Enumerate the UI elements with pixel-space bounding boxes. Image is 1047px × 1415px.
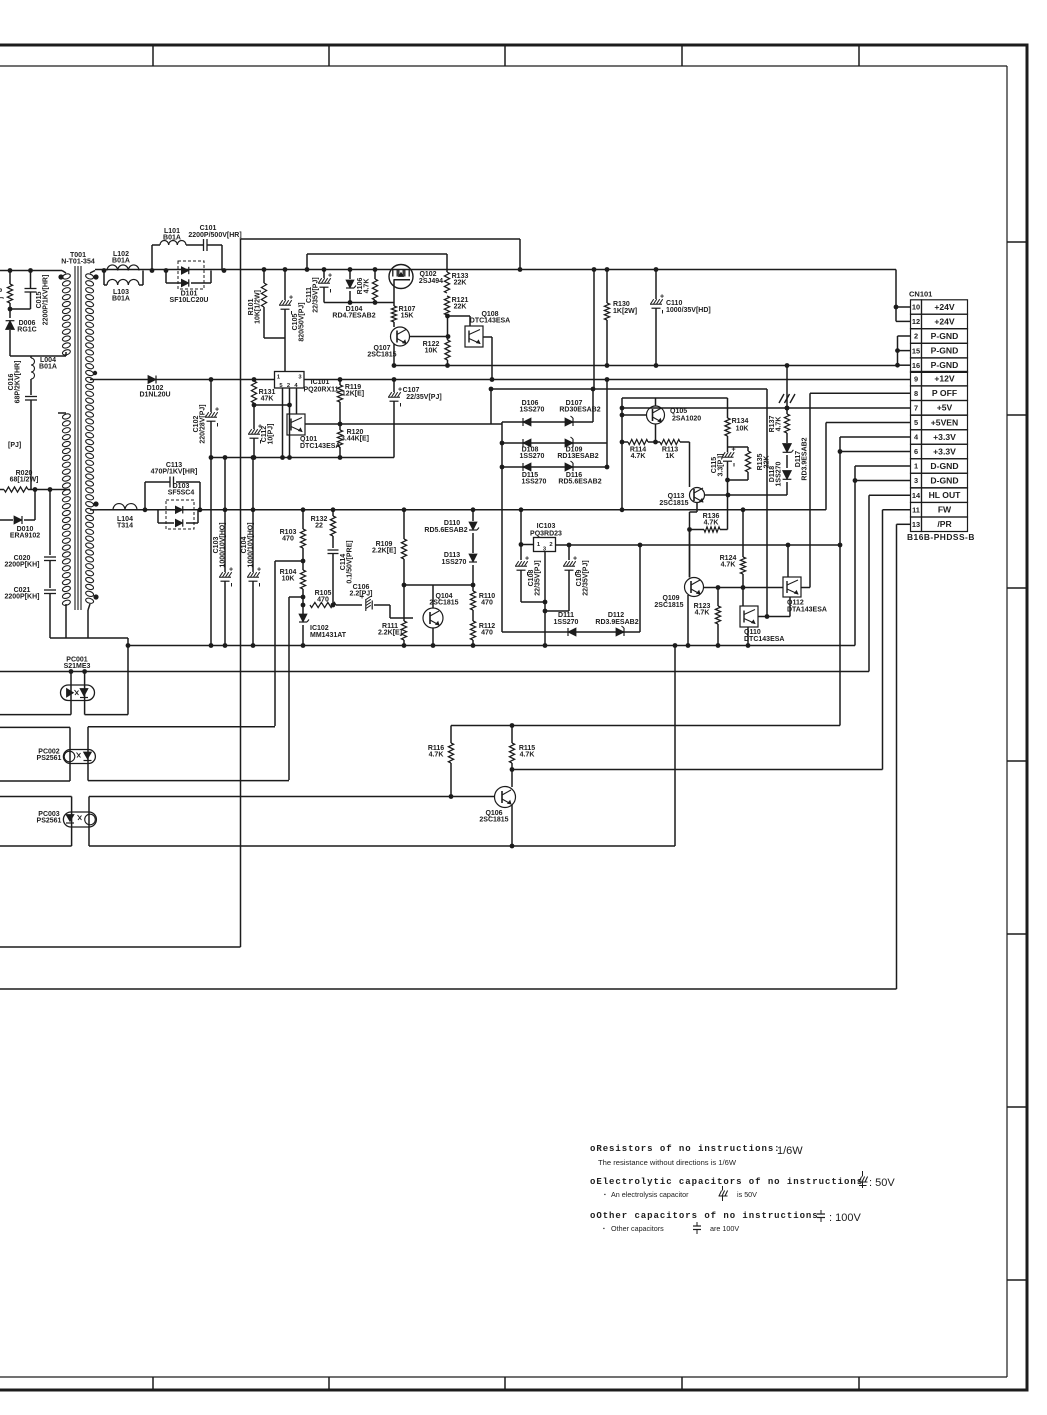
svg-text:B01A: B01A: [163, 235, 181, 242]
svg-text:RG1C: RG1C: [17, 327, 36, 334]
optocoupler PC003: [63, 812, 96, 827]
zener D112: [616, 628, 624, 636]
wire R104 to IC102: [302, 589, 304, 614]
wire +3.3V riser to pins 4/6: [839, 437, 841, 545]
wire P-GND drop to 777: [786, 366, 788, 409]
svg-text:PQ20RX11: PQ20RX11: [303, 387, 338, 394]
resistor R121: [444, 296, 449, 315]
node D112 riser top: [638, 543, 643, 548]
svg-text:is 50V: is 50V: [737, 1190, 757, 1199]
wire R131 bottom to pin2: [254, 404, 289, 406]
svg-text:D113: D113: [444, 552, 460, 559]
wire PC002 left-bottom wire: [0, 780, 70, 782]
diode D101 lower: [181, 279, 188, 286]
transformer polarity dot primary: [58, 274, 63, 279]
wire Q113 emitter drop: [696, 503, 698, 513]
svg-text:4.7K: 4.7K: [364, 279, 371, 294]
svg-text:B01A: B01A: [39, 364, 57, 371]
wire +3.3V rail: [556, 544, 841, 546]
svg-text:RD5.6ESAB2: RD5.6ESAB2: [424, 527, 467, 534]
svg-text:+: +: [660, 294, 664, 301]
wire +24V rail (transformer secondary to CN101): [95, 269, 896, 271]
svg-text:R134: R134: [732, 418, 749, 425]
wire Q108 output: [483, 336, 492, 338]
svg-text:6: 6: [914, 447, 918, 456]
node PC001 right on HL line: [82, 669, 87, 674]
node x211 rail457 left: [209, 455, 214, 460]
capacitor C020: [44, 556, 56, 558]
resistor R110: [470, 591, 475, 610]
wire D111/D112 row: [502, 631, 640, 633]
svg-text:SF5SC4: SF5SC4: [168, 490, 195, 497]
resistor R123: [717, 588, 719, 607]
svg-text:22K: 22K: [454, 304, 467, 311]
node C108 on +5VEN: [519, 507, 524, 512]
node R132 top: [331, 507, 336, 512]
node C104 bottom: [251, 643, 256, 648]
wire bottom-left horizontal y=947: [0, 946, 241, 948]
wire HL OUT long line y=672: [0, 671, 869, 673]
svg-text:14: 14: [912, 491, 921, 500]
node C103 top on y457: [223, 455, 228, 460]
resistor R106: [374, 270, 376, 280]
svg-text:+5V: +5V: [937, 403, 953, 413]
inductor L103 (parallel): [103, 271, 105, 286]
note electrolytic symbol: [859, 1177, 862, 1183]
wire D107 riser: [592, 389, 594, 422]
svg-text:10K[1/2W]: 10K[1/2W]: [255, 290, 262, 324]
svg-text:2200P[KH]: 2200P[KH]: [4, 562, 39, 569]
wire IC103 pin3 drop: [544, 552, 546, 646]
svg-text:Q113: Q113: [668, 493, 685, 500]
wire +5V wire to pin7: [620, 407, 910, 409]
svg-text:10K: 10K: [736, 426, 749, 433]
wire IC101 pin2 drop: [289, 388, 291, 458]
capacitor C015: [30, 271, 32, 289]
svg-text:2SC1815: 2SC1815: [429, 600, 458, 607]
wire x594 from +24V: [593, 270, 595, 390]
node L101 branch left: [150, 268, 155, 273]
svg-text:DTC143ESA: DTC143ESA: [744, 636, 784, 643]
wire C108 riser: [520, 510, 522, 560]
wire secondary top exit: [90, 271, 95, 274]
svg-text:22K: 22K: [454, 280, 467, 287]
node divider tap: [301, 559, 306, 564]
node C105 top: [283, 267, 288, 272]
right border tick 3: [1007, 587, 1027, 589]
node Q110 emitter: [746, 643, 751, 648]
wire C115/R135 bottom tie: [728, 479, 749, 481]
resistor R130: [606, 270, 608, 304]
transistor Q107: [391, 327, 410, 346]
wire PC001 bottom-left: [0, 714, 71, 716]
svg-text:8: 8: [914, 389, 918, 398]
wire ground rail riser: [127, 638, 129, 646]
resistor R113: [660, 439, 680, 444]
svg-text:+: +: [289, 295, 293, 302]
node riser x=491: [489, 387, 494, 392]
capacitor C021: [44, 589, 56, 591]
wire PC003 left-top wire: [0, 796, 72, 798]
wire D112 riser to +3.3V: [639, 545, 641, 632]
node D107 riser: [591, 387, 596, 392]
transformer polarity dot +12V tap: [93, 371, 97, 375]
svg-text:1: 1: [914, 462, 918, 471]
svg-text:1K: 1K: [666, 453, 675, 460]
bottom border tick 3: [504, 1377, 506, 1390]
drawing frame inner border (bottom): [0, 1376, 1007, 1378]
svg-text:C107: C107: [403, 387, 420, 394]
node P-GND tap x787: [785, 363, 790, 368]
node pin10 wire: [894, 305, 899, 310]
transistor Q110 (digital): [740, 606, 758, 627]
wire pin5 +5VEN stub: [826, 422, 911, 424]
wire Q105 emitter stub: [655, 398, 657, 406]
svg-text:+24V: +24V: [934, 316, 955, 326]
svg-text:IC103: IC103: [537, 523, 556, 530]
wire D-GND vertical: [854, 466, 856, 646]
svg-text:1SS270: 1SS270: [442, 559, 467, 566]
node R130 bottom: [605, 363, 610, 368]
svg-text:1SS270: 1SS270: [520, 407, 545, 414]
resistor R112: [472, 610, 474, 621]
wire PC001 left pin: [70, 672, 72, 715]
svg-text:+: +: [328, 273, 332, 280]
ic IC101 box: [275, 372, 305, 389]
resistor R135: [747, 447, 749, 451]
svg-text:12: 12: [912, 317, 920, 326]
node +3.3V tie: [838, 449, 843, 454]
diode D115: [523, 463, 531, 471]
svg-text:10K: 10K: [282, 576, 295, 583]
resistor R134: [727, 398, 729, 418]
svg-text:PS2561: PS2561: [37, 818, 62, 825]
node R109 top: [402, 507, 407, 512]
svg-text:22: 22: [315, 523, 323, 530]
svg-text:ERA9102: ERA9102: [10, 533, 40, 540]
node R124 bottom on collector row: [741, 585, 746, 590]
note other symbol: [820, 1210, 822, 1214]
resistor R018 (partial at left edge): [7, 284, 12, 303]
wire feedback tap 2: [289, 596, 303, 598]
drawing frame outer border (right): [1026, 45, 1029, 1391]
zener D116: [565, 463, 573, 471]
node R122 bottom: [445, 363, 450, 368]
node C109 return: [543, 609, 548, 614]
node R123 top: [716, 585, 721, 590]
svg-text:4.7K: 4.7K: [721, 562, 736, 569]
svg-text:The resistance without directi: The resistance without directions is 1/6…: [598, 1158, 737, 1167]
svg-text:10: 10: [912, 303, 920, 312]
svg-text:2SC1815: 2SC1815: [367, 352, 396, 359]
wire PC002 left pin: [69, 727, 71, 781]
right border tick 5: [1007, 933, 1027, 935]
transistor Q101 (digital): [287, 414, 305, 435]
svg-text:MM1431AT: MM1431AT: [310, 632, 347, 639]
svg-text:B01A: B01A: [112, 258, 130, 265]
wire snubber rail left drop: [306, 254, 308, 270]
wire secondary bottom exit: [88, 604, 90, 610]
wire D109 riser: [606, 380, 608, 468]
svg-text:2: 2: [549, 542, 552, 548]
wire Q106 emitter: [511, 805, 513, 846]
resistor R111: [403, 585, 405, 621]
svg-text:+: +: [573, 556, 577, 563]
wire Q104 collector row: [404, 584, 473, 586]
wire Q101 output row y=424: [305, 423, 502, 425]
svg-text:1/6W: 1/6W: [777, 1145, 803, 1157]
wire +12V rail (transformer tap to CN101 pin9): [97, 379, 910, 381]
svg-text:D110: D110: [444, 520, 460, 527]
node R109 bottom: [402, 583, 407, 588]
svg-text:+: +: [525, 556, 529, 563]
svg-text:+3.3V: +3.3V: [933, 446, 956, 456]
resistor R109: [403, 510, 405, 539]
zener D107: [565, 418, 573, 426]
svg-text:are 100V: are 100V: [710, 1224, 739, 1233]
capacitor C115 (electrolytic): [727, 447, 729, 452]
inductor L104: [113, 504, 125, 510]
node R114 left: [620, 440, 625, 445]
diode D102: [148, 376, 156, 384]
wire Q109 emitter: [687, 595, 689, 646]
wire /PR long line y=989: [0, 988, 897, 990]
node C105 return: [283, 377, 288, 382]
svg-text:2200P/500V[HR]: 2200P/500V[HR]: [188, 232, 241, 239]
node R020/D010 junction: [33, 487, 38, 492]
node C101 branch right: [222, 268, 227, 273]
chassis symbol 777: [779, 394, 784, 403]
capacitor C112 (electrolytic): [253, 405, 255, 429]
node Q106 emitter on PC003 line: [510, 844, 515, 849]
svg-text:2SA1020: 2SA1020: [672, 416, 701, 423]
wire pin13 /PR: [897, 523, 911, 525]
resistor R131: [253, 380, 255, 382]
svg-text:+: +: [398, 387, 402, 394]
node Q105 frame on +5VEN: [620, 507, 625, 512]
svg-text:3.44K[E]: 3.44K[E]: [341, 436, 369, 443]
wire Q109 base vertical: [689, 530, 691, 578]
svg-text:An electrolysis capacitor: An electrolysis capacitor: [611, 1190, 689, 1199]
right border tick 4: [1007, 760, 1027, 762]
wire R103/R104 divider: [302, 548, 304, 570]
wire ground drop to Q106 emitter line: [674, 646, 676, 847]
svg-text:PS2561: PS2561: [37, 755, 62, 762]
node D110 top: [471, 507, 476, 512]
wire PC003 right-bottom line: [89, 845, 675, 847]
resistor R107: [391, 306, 396, 322]
svg-text:4.7K: 4.7K: [776, 417, 783, 432]
wire R113 to Q113 base: [689, 442, 691, 487]
wire PC003 right-top to Q106 base: [89, 796, 495, 798]
svg-text:RD5.6ESAB2: RD5.6ESAB2: [558, 479, 601, 486]
svg-text:FW: FW: [938, 505, 952, 515]
svg-text:3: 3: [914, 476, 918, 485]
node R105 tap: [301, 603, 306, 608]
wire +24V to pin10: [895, 270, 897, 308]
svg-text:DTC143ESA: DTC143ESA: [300, 443, 340, 450]
top border tick 3: [504, 45, 506, 66]
resistor R124: [742, 510, 744, 557]
wire PC003 right pin: [88, 797, 90, 847]
node C103 at +5VEN: [223, 507, 228, 512]
wire +5VEN riser to pin5: [825, 423, 827, 510]
svg-text:P-GND: P-GND: [931, 331, 959, 341]
svg-text:22/35V[PJ]: 22/35V[PJ]: [313, 277, 320, 312]
svg-text:Q105: Q105: [670, 408, 687, 415]
node chassis on +5V wire: [785, 406, 790, 411]
svg-text:2.2K[E]: 2.2K[E]: [372, 548, 396, 555]
svg-text:Other capacitors: Other capacitors: [611, 1224, 664, 1233]
wire D106 row: [502, 421, 593, 423]
transistor Q104: [423, 608, 443, 628]
node D104 bottom: [348, 300, 353, 305]
wire pin8 P OFF: [810, 392, 911, 394]
svg-text:2.2K[E]: 2.2K[E]: [378, 630, 402, 637]
svg-text:P OFF: P OFF: [932, 388, 957, 398]
svg-text:N-T01-354: N-T01-354: [61, 259, 95, 266]
svg-text:CN101: CN101: [909, 290, 932, 299]
node x211 ground: [209, 643, 214, 648]
wire pin6 +3.3V: [840, 451, 911, 453]
svg-text:Q109: Q109: [662, 595, 679, 602]
wire +5VEN rail: [97, 509, 826, 511]
diode D103 lower: [175, 519, 182, 526]
svg-text:B16B-PHDSS-B: B16B-PHDSS-B: [907, 532, 975, 542]
node R111 bottom: [402, 643, 407, 648]
transistor Q113: [690, 488, 705, 503]
svg-text:oResistors of no instructions:: oResistors of no instructions:: [590, 1144, 781, 1154]
svg-text:C101: C101: [200, 225, 217, 232]
node R116 bottom: [449, 794, 454, 799]
ic IC102 shunt ref: [299, 614, 307, 622]
wire IC103 pin1 wire: [521, 544, 534, 546]
svg-text:▪: ▪: [604, 1192, 606, 1198]
top border tick 1: [152, 45, 154, 66]
wire down to D006: [9, 303, 11, 318]
node R114/R113 junction: [653, 440, 658, 445]
resistor R120: [339, 424, 341, 430]
node R115 bottom FW tie: [510, 767, 515, 772]
capacitor C107 (electrolytic): [393, 380, 395, 393]
svg-text:D-GND: D-GND: [930, 461, 958, 471]
capacitor C111 (electrolytic): [323, 270, 325, 279]
transformer polarity dot secondary top: [93, 274, 98, 279]
wire top loop drop to +24V rail: [519, 239, 521, 270]
node R103 top: [301, 507, 306, 512]
svg-text:2SC1815: 2SC1815: [654, 602, 683, 609]
svg-text:]: ]: [0, 297, 4, 299]
node R120 bottom: [338, 455, 343, 460]
svg-text:RD13ESAB2: RD13ESAB2: [557, 453, 598, 460]
wire C105 return to +12V rail: [284, 338, 286, 380]
node D103 right: [198, 507, 203, 512]
node R018 bottom: [8, 307, 13, 312]
wire chain to R136: [727, 495, 729, 530]
wire +3.3V drop to top bar: [839, 545, 841, 726]
diode D101 lower loop: [165, 271, 167, 284]
wire feedback tap 1: [275, 560, 303, 562]
right border tick 6: [1007, 1106, 1027, 1108]
capacitor C104 (electrolytic): [252, 458, 254, 573]
wire PC001 right pin: [84, 672, 86, 715]
wire primary top into winding: [62, 271, 66, 274]
node +3.3V drop: [838, 543, 843, 548]
wire R101/C105 bottom tie: [264, 337, 285, 339]
drawing frame inner border (top): [0, 65, 1007, 67]
wire +24V to pin12: [895, 307, 897, 321]
wire Q105 base wire: [622, 414, 647, 416]
connector CN101 body: [911, 300, 922, 314]
svg-text:DTA143ESA: DTA143ESA: [787, 607, 827, 614]
wire riser x=491: [490, 389, 492, 424]
wire C106 to Q104 base: [389, 605, 391, 618]
node C102 top: [209, 377, 214, 382]
node C112 bottom: [252, 455, 257, 460]
svg-text:Q110: Q110: [744, 629, 761, 636]
resistor R104: [300, 570, 305, 589]
bottom border tick 1: [152, 1377, 154, 1390]
wire Q107 emitter to P-GND: [393, 344, 395, 366]
wire PC003 left pin: [71, 797, 73, 847]
wire PC002 right-bottom to feedback: [88, 780, 289, 782]
wire P-GND bracket: [897, 336, 899, 365]
resistor R133: [446, 254, 448, 272]
wire sub-rail drop x=767: [766, 389, 768, 617]
node R124 top: [741, 507, 746, 512]
diode D103 dashed box: [166, 500, 194, 529]
wire sub-rail y=389: [491, 388, 767, 390]
svg-text:S21ME3: S21ME3: [64, 663, 91, 670]
svg-text:8: 8: [0, 288, 4, 292]
wire R018 top stub: [9, 271, 11, 285]
svg-text:RD3.9ESAB2: RD3.9ESAB2: [802, 437, 809, 480]
diode D101 upper: [181, 267, 188, 274]
svg-text:D1NL20U: D1NL20U: [139, 392, 170, 399]
node primary top C015: [28, 268, 33, 273]
transistor Q108 (digital): [465, 326, 483, 347]
svg-text:: 100V: : 100V: [829, 1212, 861, 1224]
svg-text:+5VEN: +5VEN: [931, 417, 958, 427]
wire Q105 frame top: [622, 397, 728, 399]
svg-text:4.7K: 4.7K: [631, 453, 646, 460]
right border tick 1: [1007, 241, 1027, 243]
svg-text:+12V: +12V: [934, 374, 955, 384]
svg-text:RD3.9ESAB2: RD3.9ESAB2: [595, 619, 638, 626]
resistor R103: [302, 510, 304, 529]
svg-text:DTC143ESA: DTC143ESA: [470, 318, 510, 325]
diode D111: [568, 628, 576, 636]
svg-text:2200P[KH]: 2200P[KH]: [4, 594, 39, 601]
diode D010: [0, 519, 13, 521]
wire chain to Q113 wire: [727, 480, 729, 495]
node pin2 bottom: [287, 455, 292, 460]
wire Q105 frame left: [621, 398, 623, 510]
svg-text:RD4.7ESAB2: RD4.7ESAB2: [332, 313, 375, 320]
node C108 pin1 tie: [519, 542, 524, 547]
capacitor C106 (electrolytic): [336, 604, 362, 606]
svg-text:10K: 10K: [425, 348, 438, 355]
node chain bottom: [725, 478, 730, 483]
svg-text:2SC1815: 2SC1815: [479, 817, 508, 824]
svg-text:820/50V[PJ]: 820/50V[PJ]: [299, 302, 306, 341]
svg-text:[PJ]: [PJ]: [8, 442, 21, 449]
diode D103 upper: [175, 506, 182, 513]
diode D101 dashed box: [178, 261, 204, 289]
svg-text:IC102: IC102: [310, 625, 329, 632]
wire pin4 +3.3V: [840, 436, 911, 438]
diode D006: [6, 321, 15, 330]
